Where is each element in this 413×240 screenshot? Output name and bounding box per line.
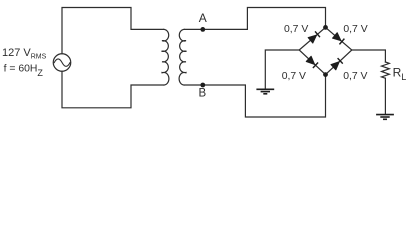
wire: secondary top from coil through node A to bridge top: [184, 8, 325, 30]
svg-text:0,7 V: 0,7 V: [343, 71, 367, 82]
svg-text:127 VRMS: 127 VRMS: [2, 47, 47, 60]
wire: primary loop top rail: [62, 8, 164, 54]
svg-text:0,7 V: 0,7 V: [343, 24, 367, 35]
wire: resistor RL to ground: [384, 78, 386, 114]
wire: bridge left corner to ground: [265, 50, 299, 89]
bridge top junction dot: [323, 25, 328, 30]
svg-text:B: B: [199, 87, 207, 99]
wire: primary loop bottom rail: [62, 71, 164, 108]
svg-text:0,7 V: 0,7 V: [284, 24, 308, 35]
diode D2 (top corner to right corner): [333, 33, 345, 45]
ground symbol (under RL): [376, 115, 394, 120]
node A junction dot: [200, 27, 205, 32]
resistor RL zigzag: [382, 62, 390, 78]
bridge diamond edges: [299, 27, 352, 74]
diode D4 (bottom corner to right corner): [331, 58, 343, 70]
diode D3 (left corner to bottom corner): [306, 56, 318, 68]
wire: secondary bottom from coil through node B to bridge bottom: [184, 75, 325, 117]
transformer T1 primary coil: [162, 29, 169, 85]
node B junction dot: [200, 83, 205, 88]
AC source V1 sine symbol: [54, 59, 70, 66]
bridge bottom junction dot: [323, 72, 328, 77]
svg-text:A: A: [199, 11, 207, 25]
diode D1 (left corner to top corner): [308, 31, 320, 43]
svg-text:f = 60HZ: f = 60HZ: [4, 64, 44, 78]
AC source V1 circle: [53, 54, 71, 72]
svg-text:0,7 V: 0,7 V: [282, 71, 306, 82]
ground symbol (bridge negative): [256, 89, 274, 94]
wire: bridge right corner to resistor RL: [352, 50, 386, 62]
svg-text:RL: RL: [393, 65, 407, 82]
transformer T1 secondary coil: [179, 29, 186, 85]
